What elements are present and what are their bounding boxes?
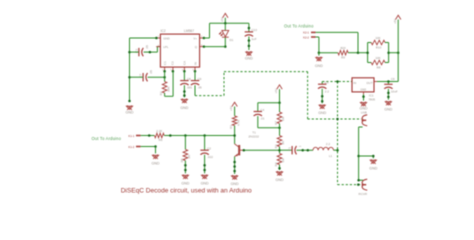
svg-text:GND: GND (384, 108, 392, 112)
svg-text:2.2: 2.2 (325, 89, 330, 93)
ground: C6 GND (384, 101, 392, 112)
capacitor C9 (191, 77, 202, 90)
svg-text:GND: GND (231, 182, 239, 186)
wire: emitter to ground (233, 157, 236, 175)
wire: parallel pair right bar (387, 43, 390, 63)
pin K2-2 (303, 35, 316, 39)
capacitor C1 (288, 145, 302, 154)
ground: C5 GND (318, 104, 326, 115)
node: dashed junction at IN feed (336, 80, 339, 83)
wire: base line (243, 149, 280, 152)
wire: C3 right lead with step to LPL pin (144, 47, 161, 54)
title text (121, 187, 252, 194)
svg-text:IC2: IC2 (161, 29, 166, 33)
svg-text:GND: GND (315, 64, 323, 68)
node: C7-pin1 junction (163, 76, 166, 79)
wire: base node to C1 (280, 149, 293, 151)
svg-text:1M: 1M (281, 116, 285, 121)
svg-text:C2: C2 (207, 147, 211, 151)
node: bottom pin dots (163, 70, 196, 73)
svg-text:C5: C5 (325, 81, 329, 85)
node: C2 tap (203, 134, 206, 137)
node: loop top corner (278, 101, 281, 104)
resistor R6 2.2K (155, 129, 165, 142)
wire: dashed to LNB center (308, 118, 362, 120)
svg-text:2.2: 2.2 (326, 142, 331, 146)
ground: left rail GND symbol (126, 105, 134, 114)
svg-text:RCVR: RCVR (359, 192, 368, 196)
wire: K1-1 to R6 (141, 134, 155, 137)
capacitor C2 (200, 147, 213, 160)
resistor R2 (159, 82, 170, 96)
node: shield-GND tap (357, 155, 360, 158)
wire: C9 down to dashed net (194, 85, 196, 95)
svg-text:.05: .05 (149, 70, 153, 75)
svg-text:K1-2: K1-2 (128, 145, 134, 149)
svg-text:GND: GND (201, 181, 209, 185)
svg-text:GND: GND (181, 181, 189, 185)
supply +5V (T1 collector) (229, 102, 237, 116)
svg-text:.001: .001 (186, 86, 192, 90)
wire: pin1 down to R2 (164, 71, 166, 81)
wire: LNB shield down (359, 127, 363, 180)
svg-text:GND: GND (245, 57, 253, 61)
node: rail-arrow junction (224, 22, 227, 25)
svg-text:C2: C2 (171, 61, 175, 65)
wire: C4 bottom lead (257, 116, 259, 128)
resistor R1 4.7K (229, 116, 240, 129)
capacitor C6 (384, 77, 398, 93)
wire: C1 to L1 (297, 149, 314, 152)
wire: R3 to base node (278, 147, 281, 154)
svg-text:3: 3 (193, 69, 194, 71)
wire: R4 to ground (278, 165, 281, 170)
svg-text:GND: GND (360, 88, 366, 92)
ground: T1 GND (231, 175, 239, 186)
wire: C2 to ground (203, 155, 206, 174)
svg-text:R9: R9 (341, 55, 345, 59)
node: pin GND end (155, 37, 158, 40)
wire: rail to C10 (248, 23, 251, 32)
svg-text:R6: R6 (159, 138, 163, 142)
capacitor C7 (139, 70, 154, 82)
supply +5V (bias chain) (274, 85, 282, 103)
svg-text:R5: R5 (180, 158, 184, 162)
svg-text:1uF: 1uF (251, 37, 256, 41)
ground: 7805 GND (360, 102, 368, 111)
wire: L1 to dashed net (334, 149, 338, 151)
wire: C5 to ground (321, 89, 324, 104)
wire: down to C2 (204, 136, 206, 151)
svg-text:GND: GND (163, 37, 169, 41)
wire: dashed vertical at x338 (337, 82, 339, 185)
wire: K1-2 to ground (141, 145, 157, 153)
svg-text:7805: 7805 (368, 97, 375, 101)
capacitor C8 (180, 77, 192, 90)
ground: shield GND (369, 159, 377, 170)
wire: C7 right lead (148, 76, 165, 78)
wire: V+ pin riser (204, 23, 210, 38)
node: R5 tap (184, 134, 187, 137)
wire: K2-1 to divider tap (316, 32, 358, 52)
wire: pair to +5V column (389, 51, 400, 54)
svg-text:.05: .05 (145, 45, 149, 50)
wire: R7 to R3 (279, 124, 281, 136)
svg-text:39K: 39K (166, 87, 170, 92)
wire: +5V column down to regulator OUT (377, 22, 398, 82)
svg-text:+5V: +5V (393, 19, 397, 24)
ground: R5 GND (181, 175, 189, 186)
svg-text:C10: C10 (251, 28, 257, 32)
svg-text:820: 820 (340, 46, 345, 50)
wire: LED cathode to Q (224, 37, 227, 47)
wire: GND-pin feed to IC2 (130, 37, 157, 39)
resistor R8 10K (368, 56, 389, 69)
voltage regulator IC1 7805 (352, 78, 377, 102)
capacitor C10 (245, 28, 258, 41)
ground: K1-2 GND (152, 155, 160, 166)
connector LNB (361, 111, 367, 126)
capacitor C4 (254, 108, 265, 121)
wire: dashed long horizontal (224, 71, 308, 73)
svg-text:10K: 10K (375, 56, 380, 60)
svg-text:1M: 1M (281, 158, 285, 163)
node: rail-C7 junction (128, 76, 131, 79)
svg-text:4.7K: 4.7K (236, 120, 240, 126)
wire: +5V top rail (210, 22, 249, 24)
connector RCVR (359, 179, 368, 196)
svg-text:6: 6 (182, 69, 183, 71)
svg-text:LNB: LNB (361, 111, 367, 115)
svg-text:R10: R10 (376, 45, 382, 49)
svg-text:.022: .022 (207, 155, 213, 159)
wire: rail down to LED (224, 23, 226, 30)
svg-text:C1: C1 (163, 61, 167, 65)
wire: R2 U-turn to pin2 (165, 71, 174, 96)
svg-text:R2: R2 (159, 91, 163, 95)
svg-text:GND: GND (180, 106, 188, 110)
svg-text:C4: C4 (260, 108, 264, 112)
svg-text:5: 5 (170, 69, 171, 71)
supply +5V (top right) (393, 15, 401, 24)
svg-text:GND: GND (369, 166, 377, 170)
svg-text:IN: IN (353, 81, 356, 85)
svg-text:LM567: LM567 (184, 29, 194, 33)
svg-text:Out To Arduino: Out To Arduino (284, 23, 314, 28)
op-amp U1: tone decoder IC2 LM567 (156, 29, 204, 71)
svg-text:CA: CA (183, 61, 187, 65)
svg-text:+5V: +5V (274, 88, 278, 93)
svg-text:+5V: +5V (229, 106, 233, 111)
svg-text:.05: .05 (198, 86, 203, 90)
svg-text:Out To Arduino: Out To Arduino (92, 136, 122, 141)
node: OUT-C6 junction (387, 80, 390, 83)
node: ground node (318, 51, 321, 54)
svg-text:K1-1: K1-1 (128, 134, 134, 138)
svg-text:GND: GND (318, 111, 326, 115)
node: pin Q end (203, 45, 206, 48)
transistor T1 2N2222 (235, 131, 260, 157)
svg-text:R4: R4 (274, 162, 278, 166)
wire: C7 left lead (130, 76, 144, 78)
svg-text:OUT: OUT (366, 81, 373, 85)
resistor R9 820 (338, 46, 348, 59)
svg-text:R8: R8 (377, 65, 381, 69)
wire: left rail vertical (C3/C7/GND net) (129, 38, 131, 101)
svg-text:LPL: LPL (163, 45, 169, 49)
wire: 7805 gnd stub (362, 94, 365, 100)
wire: C3 left lead (130, 51, 139, 53)
node: dashed junction at LNB feed (336, 118, 339, 121)
svg-text:L1: L1 (329, 154, 333, 158)
wire: pin CA down to C8 (183, 71, 185, 80)
svg-text:C1: C1 (288, 147, 292, 151)
svg-text:IN: IN (194, 62, 198, 65)
svg-text:R1: R1 (229, 125, 233, 129)
pin K1-2 (128, 145, 140, 149)
ground: C8 GND (180, 99, 188, 110)
svg-text:C9: C9 (198, 77, 202, 81)
node: dashed junction at RCVR (357, 183, 360, 186)
svg-text:.01: .01 (260, 117, 265, 121)
ground: divider GND (315, 53, 323, 68)
svg-text:2N2222: 2N2222 (248, 135, 259, 139)
svg-text:10K: 10K (375, 36, 380, 40)
wire: loop bottom rail (258, 127, 281, 130)
node: dashed junction at L1 (336, 149, 339, 152)
resistor R7 (274, 103, 285, 125)
wire: shield to RCVR (357, 179, 363, 182)
svg-text:K2-1: K2-1 (303, 31, 309, 35)
node: rail end above ground (128, 100, 131, 103)
resistor R5 (180, 149, 191, 162)
wire: R1 to collector (233, 126, 236, 144)
wire: C4 top lead (257, 103, 259, 112)
wire: R6 to collector node (164, 134, 234, 137)
svg-text:C6: C6 (391, 77, 395, 81)
svg-text:K2-2: K2-2 (303, 35, 309, 39)
wire: down to R5 (184, 136, 186, 150)
svg-text:R7: R7 (274, 121, 278, 125)
ground: R4 GND (276, 171, 284, 182)
wire: K2-2 to ground node (316, 37, 319, 53)
wire: tap to parallel pair (358, 52, 368, 54)
svg-text:10uF: 10uF (391, 89, 398, 93)
wire: parallel pair left bar (366, 43, 369, 63)
svg-text:R3: R3 (274, 144, 278, 148)
svg-text:1: 1 (162, 69, 163, 71)
resistor R10 10K (368, 36, 389, 49)
node: pin V+ end (203, 37, 206, 40)
wire: loop top rail (258, 102, 280, 104)
wire: C6 to ground (387, 89, 390, 100)
wire: dashed vertical at x308 (307, 72, 309, 119)
wire: C8 to ground (183, 85, 186, 97)
wire: gnd node to R9 (319, 52, 338, 54)
svg-text:C8: C8 (187, 77, 191, 81)
svg-text:GND: GND (152, 161, 160, 165)
wire: R9 to tap node (348, 51, 359, 54)
capacitor C5 (318, 81, 329, 94)
pin K2-1 (303, 31, 316, 35)
capacitor C3 (134, 45, 149, 57)
svg-text:2.2K: 2.2K (156, 129, 162, 133)
ground: C10 GND (245, 51, 253, 60)
supply +5V (top left) (220, 13, 228, 23)
node: rail-C3 junction (128, 51, 131, 54)
resistor R3 (274, 136, 285, 149)
wire: Q output to LED (204, 46, 225, 48)
wire: dashed C5 to 7805 IN (322, 81, 352, 83)
svg-text:DiSEqC Decode circuit, used wi: DiSEqC Decode circuit, used with an Ardu… (121, 187, 252, 194)
svg-text:D1: D1 (230, 38, 234, 42)
pin K1-1 (128, 134, 140, 138)
label: Out To Arduino (left) (92, 136, 122, 141)
wire: C10 to ground (248, 37, 251, 51)
inductor L1 (313, 142, 333, 158)
wire: pin IN down to C9 (194, 71, 196, 80)
svg-text:GND: GND (126, 110, 134, 114)
wire: dashed to RCVR center (338, 184, 362, 186)
svg-text:GND: GND (276, 178, 284, 182)
label: Out To Arduino (top right) (284, 23, 314, 28)
resistor R4 (274, 153, 285, 166)
ground: C2 GND (201, 175, 209, 186)
svg-text:2K: 2K (281, 141, 285, 145)
wire: dashed raw-supply net from C9 (195, 72, 224, 96)
svg-text:+5V: +5V (220, 17, 224, 22)
wire: shield GND branch (359, 155, 375, 159)
svg-text:2K: 2K (187, 155, 191, 159)
diode D1 (LED) (219, 30, 234, 42)
wire: R5 to ground (184, 161, 187, 174)
svg-text:V+: V+ (193, 37, 197, 41)
